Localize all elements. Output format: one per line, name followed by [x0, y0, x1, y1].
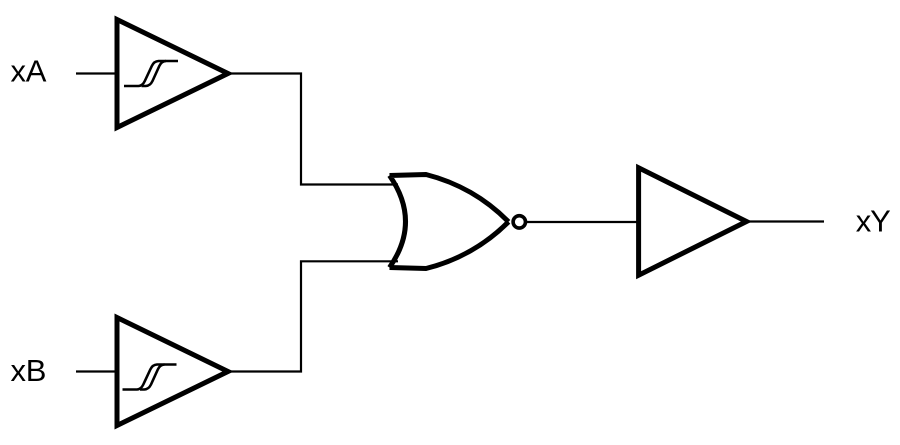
wire buffer output	[747, 220, 825, 222]
wire U2 output to NOR bottom input	[228, 261, 398, 371]
svg-text:xB: xB	[11, 353, 47, 388]
wire xA input	[76, 72, 117, 74]
wire xB input	[76, 370, 117, 372]
hysteresis symbol U2	[123, 365, 177, 390]
NOR gate U3	[390, 175, 509, 269]
buffer U4	[639, 168, 747, 275]
svg-text:xY: xY	[856, 204, 890, 239]
wire NOR output to buffer input	[527, 221, 640, 223]
schmitt buffer U2	[117, 318, 228, 426]
wire U1 output to NOR top input	[228, 74, 398, 185]
svg-text:xA: xA	[11, 54, 47, 89]
hysteresis symbol U1	[124, 61, 178, 86]
schmitt buffer U1	[117, 20, 228, 128]
NOR output bubble	[513, 216, 525, 228]
